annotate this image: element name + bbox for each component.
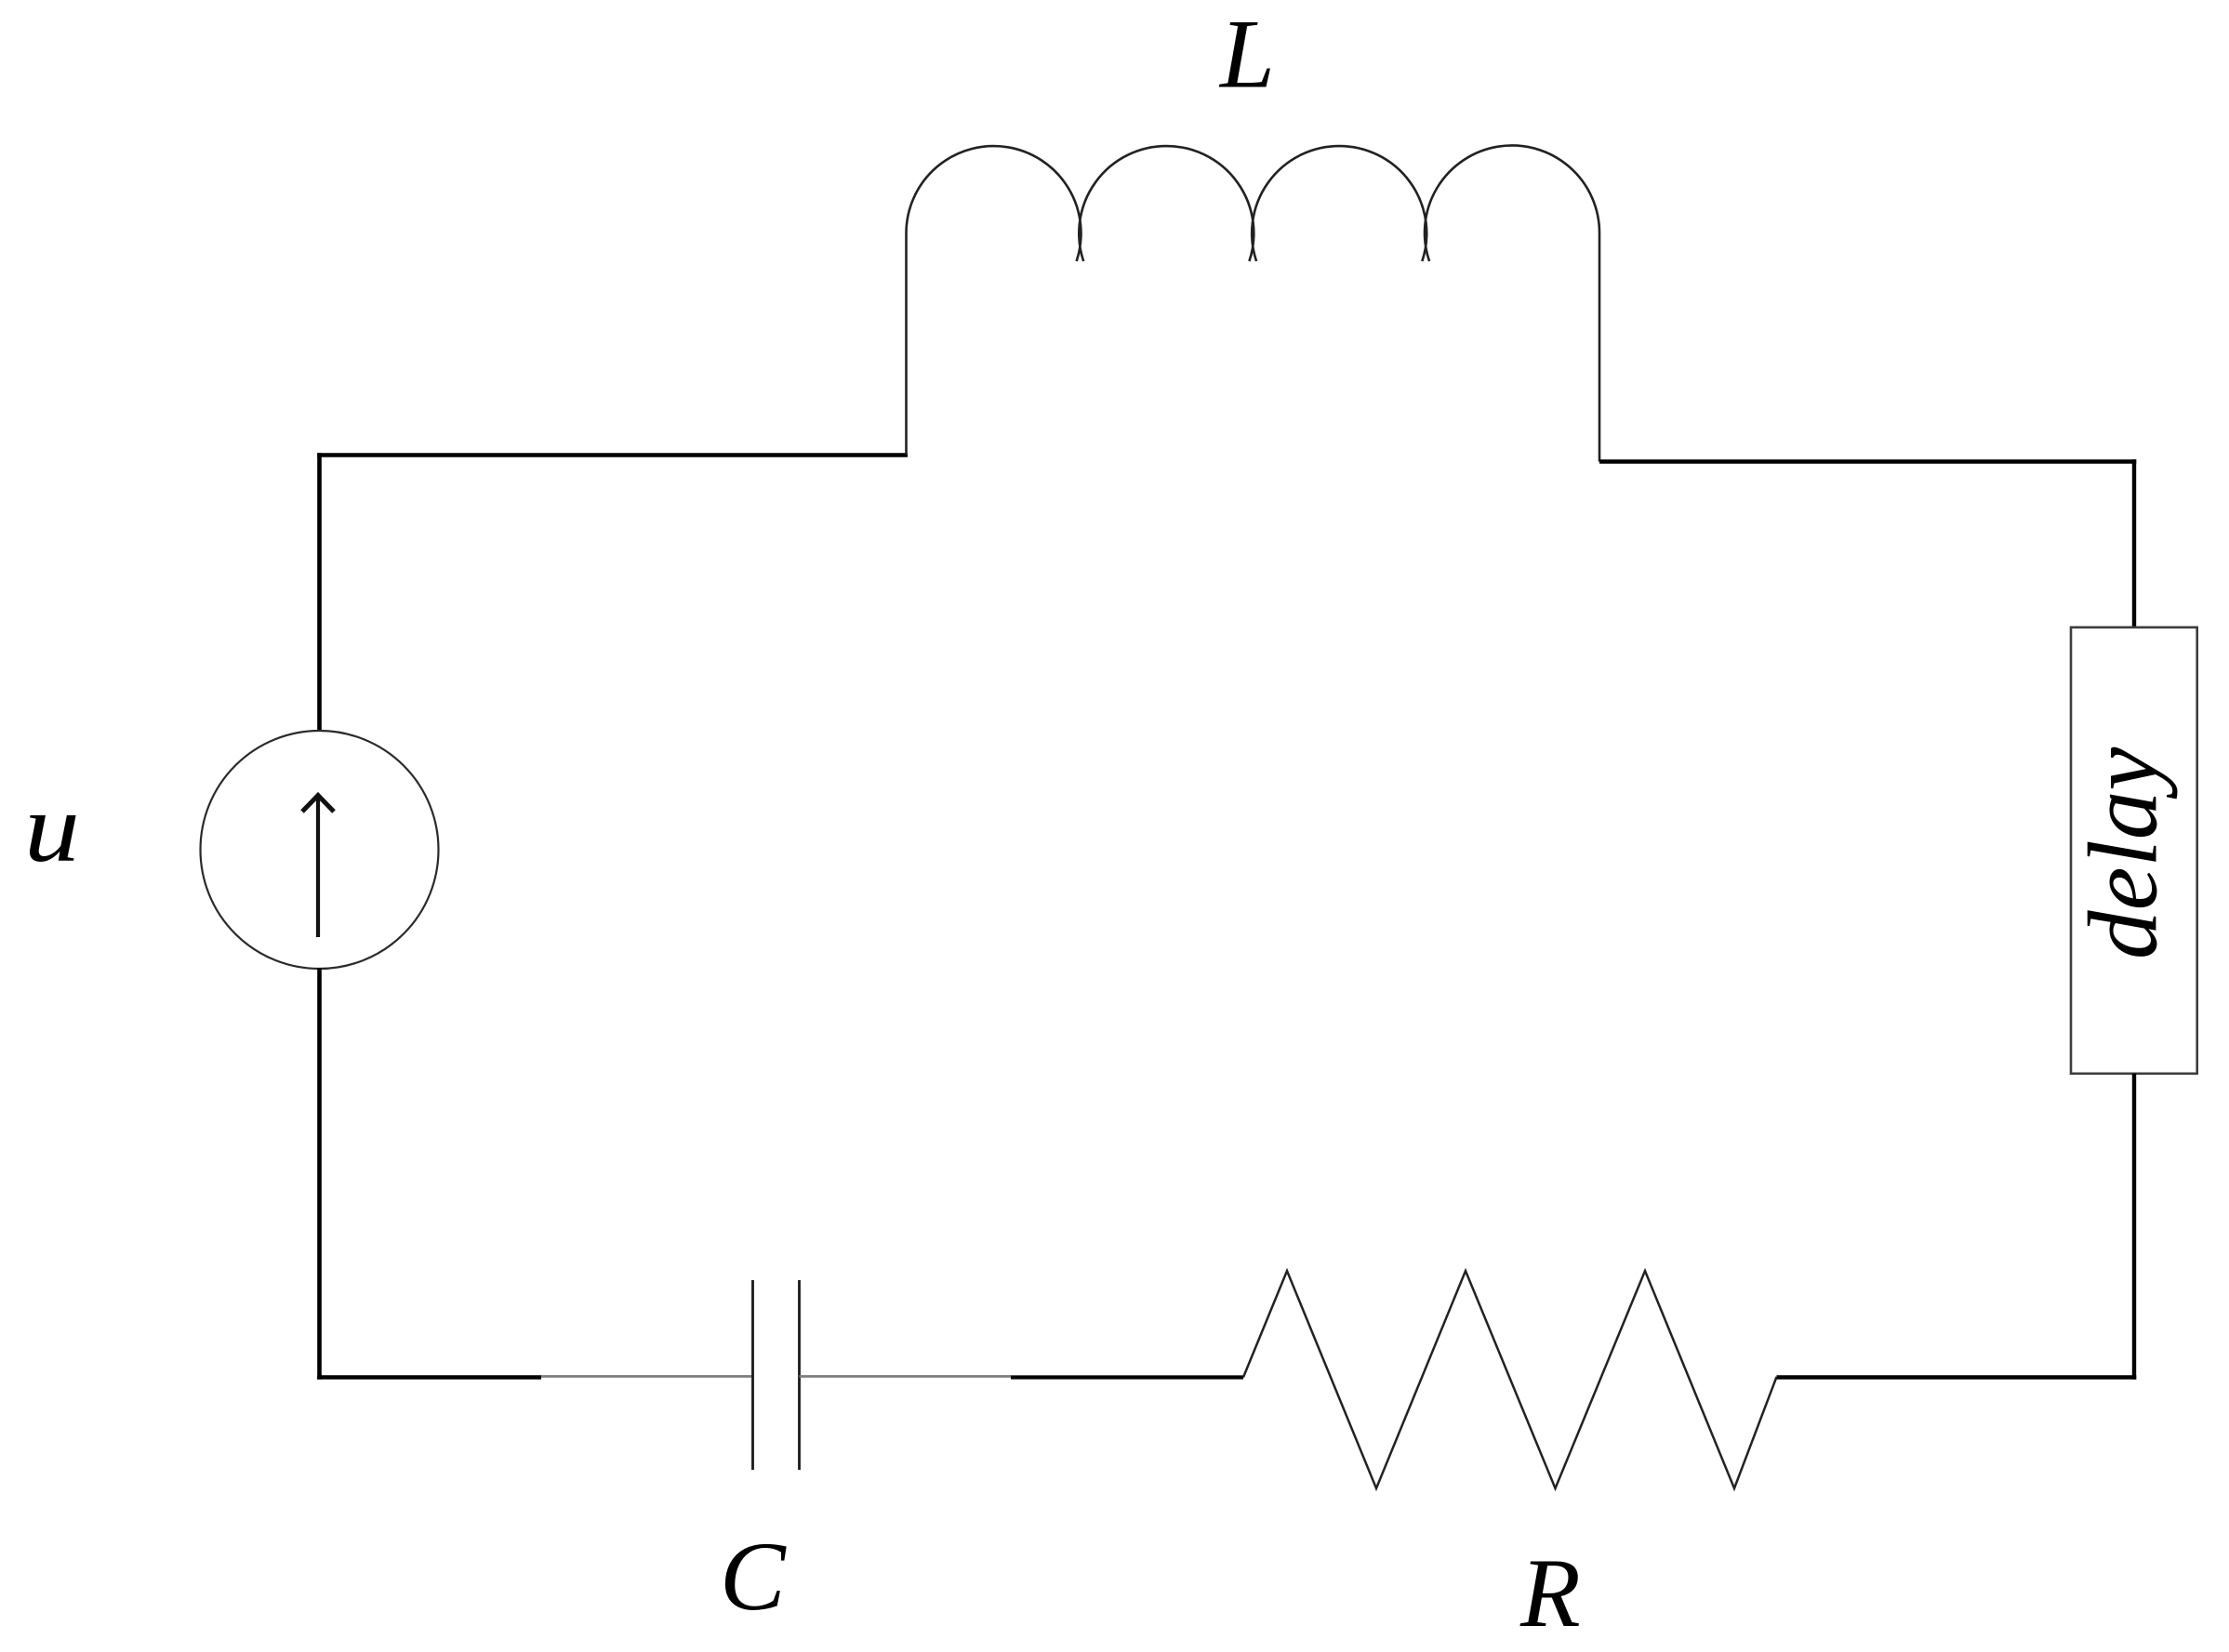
wire top-right horizontal: [1599, 459, 2136, 464]
wire gray segment to capacitor: [541, 1375, 753, 1378]
svg-text:delay: delay: [2069, 747, 2178, 959]
wire bottom black segment before resistor: [1011, 1375, 1243, 1379]
wire gray segment from capacitor: [800, 1375, 1012, 1378]
arrow shaft: [316, 798, 320, 937]
wire bottom-right black segment: [1777, 1375, 2137, 1380]
arrow head: [302, 796, 334, 813]
source u: [201, 731, 439, 969]
wire left vertical lower: [317, 968, 322, 1380]
wire right vertical lower: [2132, 1074, 2136, 1380]
svg-text:u: u: [24, 773, 80, 882]
svg-text:R: R: [1519, 1539, 1581, 1647]
inductor L: [907, 145, 1600, 461]
svg-text:L: L: [1218, 0, 1275, 109]
wire left vertical upper: [317, 453, 322, 732]
wire bottom-left black segment: [317, 1375, 541, 1380]
delay block: [2071, 628, 2197, 1074]
resistor R: [1243, 1271, 1777, 1488]
wire top-left horizontal: [317, 453, 908, 457]
capacitor C right plate: [798, 1280, 801, 1470]
wire right vertical upper: [2132, 459, 2136, 628]
svg-text:C: C: [720, 1522, 787, 1631]
capacitor C left plate: [751, 1280, 754, 1470]
